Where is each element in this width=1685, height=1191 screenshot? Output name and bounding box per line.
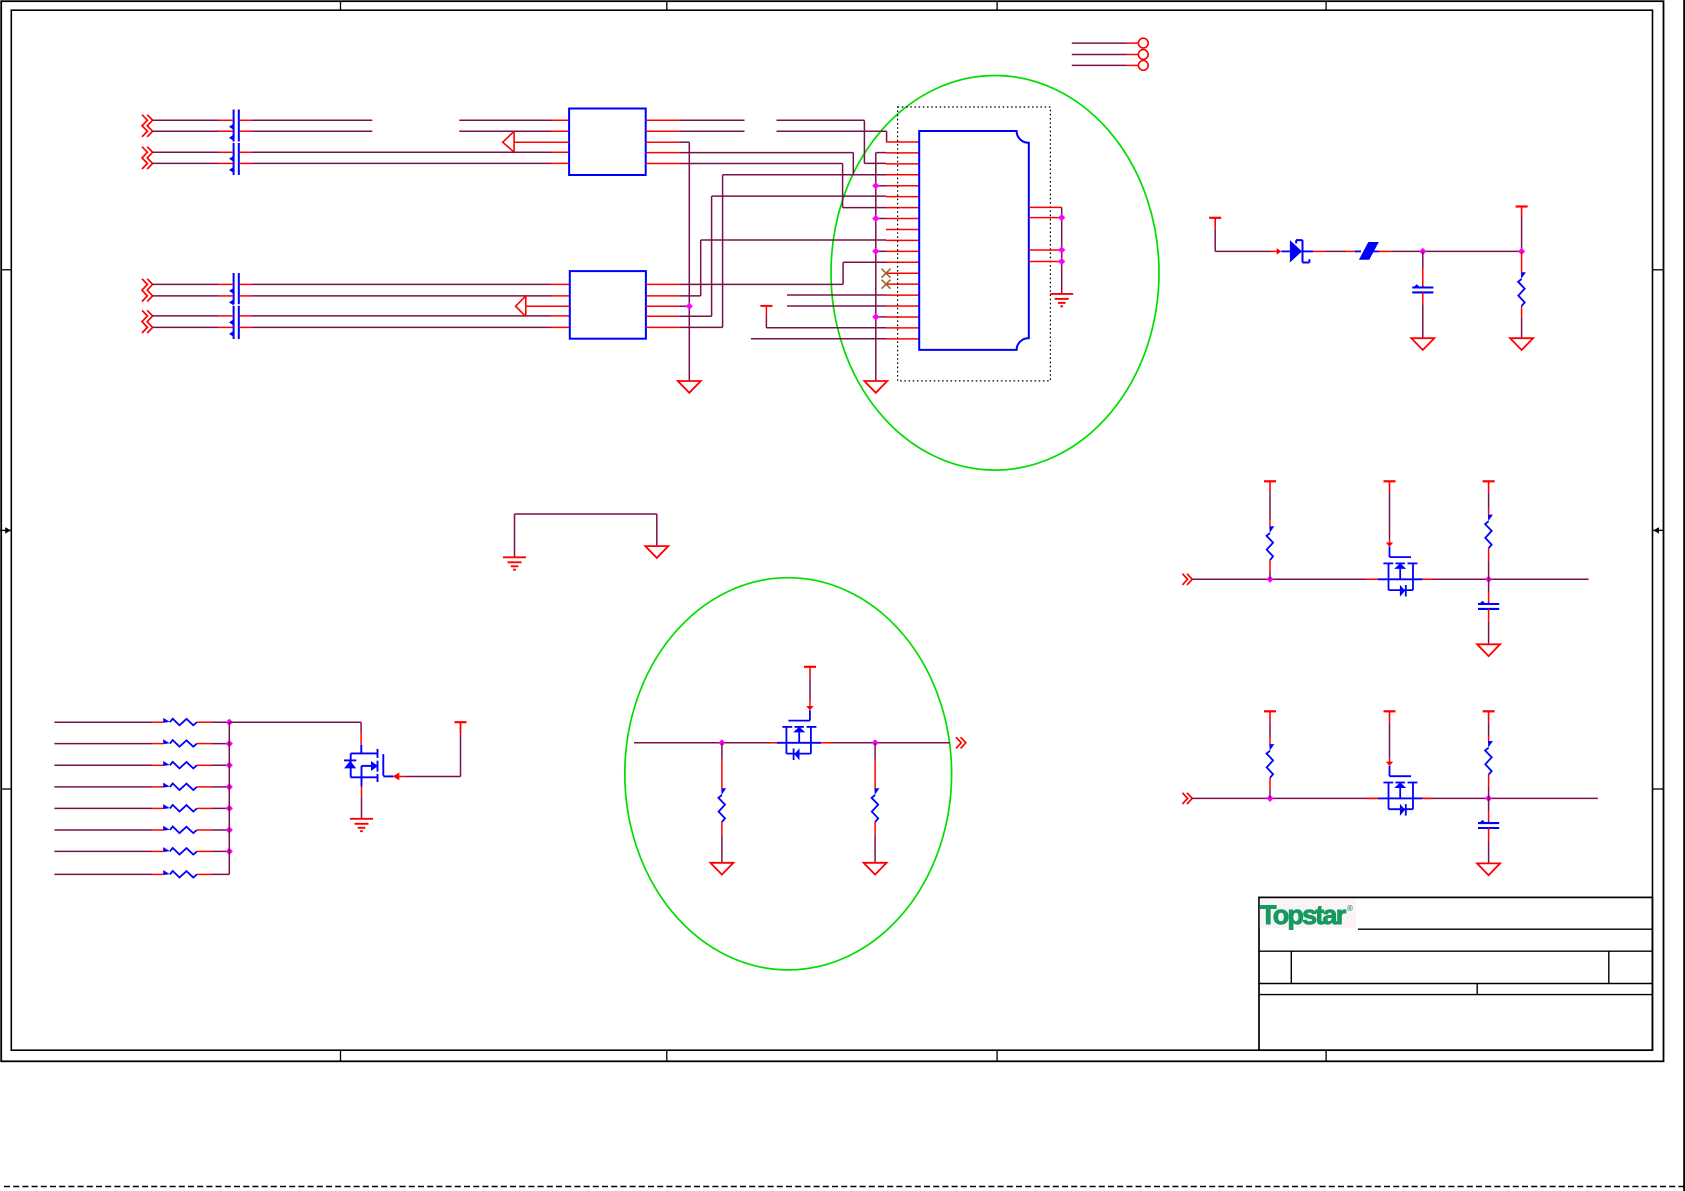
svg-text:®: ®: [1347, 904, 1353, 913]
svg-text:Topstar: Topstar: [1260, 900, 1347, 930]
